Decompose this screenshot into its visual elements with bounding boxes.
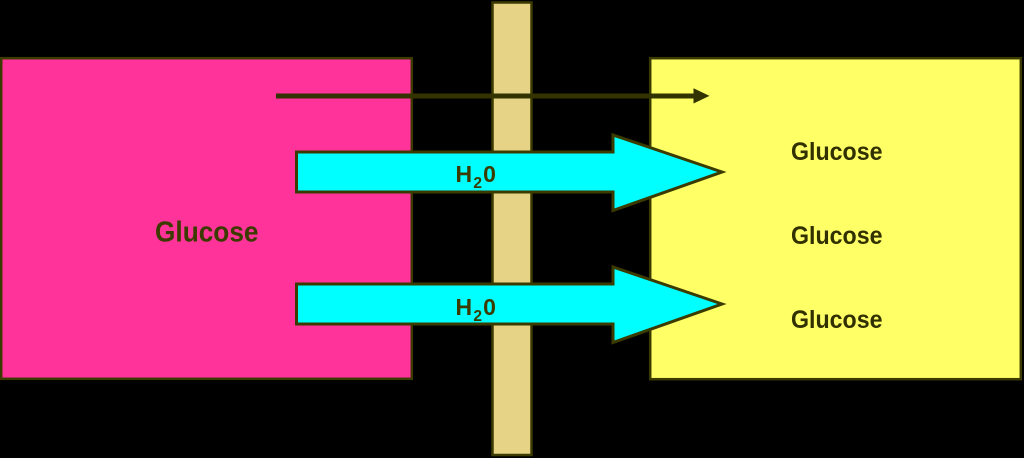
svg-text:Glucose: Glucose — [791, 306, 883, 334]
svg-text:Glucose: Glucose — [791, 138, 883, 166]
glucose diffusion arrow (thin dark arrow) — [276, 94, 696, 99]
water arrow 2 (cyan block arrow) — [297, 267, 723, 343]
membrane (tan vertical bar) — [493, 3, 532, 456]
water arrow 1 (cyan block arrow) — [297, 135, 723, 211]
svg-text:Glucose: Glucose — [155, 217, 259, 249]
svg-text:Glucose: Glucose — [791, 222, 883, 250]
left compartment (pink, solution A) — [1, 58, 412, 379]
right compartment (yellow, solution B) — [650, 58, 1021, 379]
